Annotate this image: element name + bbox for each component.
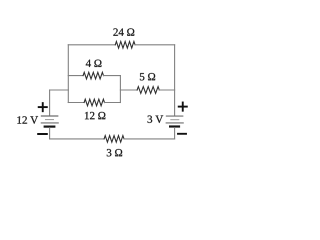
wire top-left segment [68, 44, 115, 46]
label 3 V [148, 116, 164, 123]
resistor 12 ohm [84, 99, 104, 106]
wire right vertical upper [174, 45, 176, 116]
battery 3 V stem lower [174, 128, 176, 139]
battery 12 V plate short upper [46, 119, 54, 121]
resistor 5 ohm [137, 87, 159, 94]
wire battery-to-box mid segment [50, 89, 69, 91]
wire 12-ohm branch left lead [68, 102, 84, 104]
resistor 4 ohm [83, 72, 103, 79]
battery 3 V plate long lower [166, 122, 183, 124]
plus sign battery 3 V [179, 103, 187, 111]
battery 3 V plate short bold [170, 125, 179, 127]
label 3 ohm [107, 149, 122, 156]
wire box-to-5ohm mid segment [120, 89, 137, 91]
battery 12 V stem upper [49, 90, 51, 116]
wire left vertical [67, 45, 69, 103]
wire 5ohm-to-right-vertical segment [159, 89, 174, 91]
battery 3 V plate long top [166, 115, 182, 117]
resistor 3 ohm [104, 136, 124, 143]
wire bottom-left segment [50, 138, 105, 140]
label 4 ohm [86, 60, 102, 67]
resistor 24 ohm [115, 42, 135, 49]
plus sign battery 12 V [39, 103, 47, 111]
battery 12 V plate long top [41, 115, 57, 117]
wire 4-ohm branch left lead [68, 75, 83, 77]
minus sign battery 12 V [38, 133, 47, 135]
wire 12-ohm branch right lead [105, 102, 121, 104]
battery 12 V plate long lower [41, 122, 58, 124]
label 12 V [17, 116, 38, 123]
label 24 ohm [113, 28, 134, 35]
battery 12 V stem lower [49, 128, 51, 139]
minus sign battery 3 V [178, 133, 186, 135]
wire 4-ohm branch right lead [104, 75, 121, 77]
wire bottom-right segment [124, 138, 175, 140]
wire top-right segment [135, 44, 175, 46]
battery 12 V plate short bold [45, 125, 55, 127]
label 12 ohm [85, 112, 105, 119]
wire parallel-box right vertical [119, 76, 121, 103]
label 5 ohm [140, 73, 155, 80]
battery 3 V plate short upper [171, 119, 179, 121]
